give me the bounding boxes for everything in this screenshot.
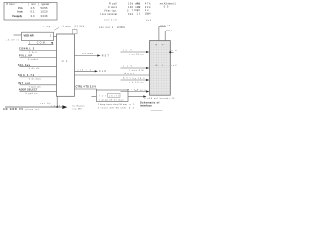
svg-text:3.3 3.6: 3.3 3.6	[41, 14, 49, 18]
svg-text:7 open drn: 7 open drn	[29, 85, 42, 88]
svg-text:interface: interface	[140, 105, 152, 108]
svg-text:5 i2c clk: 5 i2c clk	[29, 68, 40, 70]
comparator block A1	[96, 90, 128, 102]
svg-text:SDA 4.7k: SDA 4.7k	[18, 74, 35, 77]
svg-text:Vin: Vin	[18, 6, 23, 10]
svg-text:8 gnd tie: 8 gnd tie	[26, 92, 39, 95]
svg-text:f osc nominal: f osc nominal	[100, 13, 117, 16]
svg-text:Iout: Iout	[18, 10, 23, 14]
svg-text:miso: miso	[127, 89, 139, 91]
note list N2 (top right)	[134, 2, 151, 15]
svg-text:b2: b2	[129, 108, 135, 110]
svg-text:ant: ant	[166, 29, 171, 32]
svg-text:vcc io: vcc io	[161, 25, 171, 27]
svg-text:10uH: 10uH	[145, 13, 151, 16]
pin row INT (wire)	[18, 82, 57, 88]
svg-text:rst mon: rst mon	[82, 52, 94, 55]
svg-text:t prop 25 ns max: t prop 25 ns max	[100, 99, 125, 102]
wire MISO into module	[121, 89, 150, 93]
svg-text:4.5: 4.5	[31, 6, 36, 10]
regulator sub-box U2	[22, 32, 57, 40]
svg-text:CLK: CLK	[99, 71, 106, 73]
svg-text:VDD NR: VDD NR	[24, 34, 34, 37]
svg-text:32k: 32k	[128, 13, 134, 16]
note list N1 (top middle)	[100, 2, 141, 21]
bottom note lines	[98, 103, 135, 110]
note N3 (top far right)	[160, 2, 177, 8]
IC U1 main block	[57, 34, 75, 96]
pin CLK (wire with arrow)	[75, 69, 107, 73]
svg-text:via M3: via M3	[73, 109, 83, 111]
svg-text:05: 05	[164, 6, 169, 9]
svg-text:osc out 1: osc out 1	[99, 26, 114, 29]
wire comparator output	[128, 90, 147, 97]
wire DOUT long net to PHY	[75, 72, 150, 80]
pin RST (wire with arrow)	[75, 52, 110, 57]
node VOUT on module right	[169, 50, 177, 67]
stub ANT on module top	[165, 29, 171, 41]
wire SPI CS into module	[121, 49, 150, 56]
crystal Y1 on top pin	[72, 29, 77, 34]
svg-text:a1: a1	[130, 104, 136, 106]
svg-text:Vsupply: Vsupply	[12, 14, 23, 18]
svg-text:tp 18.2: tp 18.2	[133, 77, 145, 80]
svg-text:i o: i o	[86, 69, 92, 71]
svg-text:5.0 5.5: 5.0 5.5	[41, 6, 49, 10]
ground rail label	[3, 102, 61, 111]
svg-text:to chassis: to chassis	[73, 105, 86, 108]
wire SPI SCK into module	[121, 65, 150, 72]
svg-text:f max 8 M: f max 8 M	[129, 70, 143, 72]
figure caption	[140, 102, 163, 111]
svg-text:4 x50 mil header J2: 4 x50 mil header J2	[144, 97, 175, 100]
svg-text:2 route diff 90 ohm: 2 route diff 90 ohm	[98, 107, 126, 110]
svg-text:vo: vo	[172, 50, 178, 52]
wire input to LDO box	[14, 34, 22, 36]
svg-text:1 keep trace short 50 mm: 1 keep trace short 50 mm	[98, 103, 127, 106]
wire EN to comparator	[75, 86, 97, 97]
supply stub VCC on module top	[146, 20, 171, 40]
svg-text:6 i2c data: 6 i2c data	[29, 77, 42, 80]
svg-text:min: min	[31, 2, 37, 6]
annotation mid	[99, 26, 125, 29]
svg-text:P nom: P nom	[7, 2, 15, 6]
svg-text:+3.3V in: +3.3V in	[6, 39, 20, 41]
svg-text:ret 0v: ret 0v	[40, 102, 51, 105]
module M1 (shaded)	[150, 41, 171, 96]
ground arrow	[62, 105, 67, 109]
leader line	[54, 27, 59, 30]
svg-text:io2: io2	[172, 65, 178, 67]
pin row PULLUP (wire)	[19, 56, 57, 61]
svg-text:2 N.C.: 2 N.C.	[29, 52, 38, 54]
svg-text:. . . .: . . . .	[53, 26, 62, 28]
svg-text:1.0 2.0: 1.0 2.0	[41, 10, 49, 14]
svg-text:3v3: 3v3	[146, 20, 152, 22]
svg-text:3 addr0: 3 addr0	[28, 58, 39, 61]
svg-text:XT 32k: XT 32k	[75, 26, 85, 28]
junction dot	[56, 106, 58, 108]
riser wire to U1	[56, 96, 58, 107]
svg-text:3.0: 3.0	[31, 14, 36, 18]
svg-text:t su 20 ns: t su 20 ns	[129, 53, 143, 56]
svg-text:note 3 ref: note 3 ref	[104, 18, 117, 21]
svg-text:plane ref: plane ref	[26, 108, 39, 111]
pin row SDA (wire)	[18, 74, 57, 80]
net row COM under U2	[28, 42, 54, 44]
ground net label	[73, 105, 86, 111]
svg-text:shift: shift	[109, 94, 119, 97]
pin row SCL (wire)	[18, 65, 57, 70]
svg-text:1 max: 1 max	[63, 26, 72, 28]
svg-text:to MCU: to MCU	[117, 26, 125, 29]
svg-text:0.1: 0.1	[31, 10, 36, 14]
svg-text:t h 10 ns: t h 10 ns	[129, 81, 143, 84]
svg-text:RST: RST	[102, 55, 110, 57]
svg-text:typ max: typ max	[42, 2, 50, 6]
pin row CONN L (wire)	[19, 49, 57, 54]
svg-text:CTRL 4 TO 2.5 V: CTRL 4 TO 2.5 V	[76, 86, 97, 89]
ground rail wire	[5, 106, 62, 108]
table T1 parameter box	[4, 2, 57, 20]
svg-text:INT out: INT out	[18, 82, 30, 85]
wire MOSI into module	[121, 77, 150, 84]
svg-text:r up.: r up.	[44, 25, 52, 28]
annotation note above U1	[44, 25, 85, 28]
pin row ADDR SELECT (wire)	[19, 89, 57, 96]
svg-text:AN GND 0V: AN GND 0V	[3, 108, 23, 111]
